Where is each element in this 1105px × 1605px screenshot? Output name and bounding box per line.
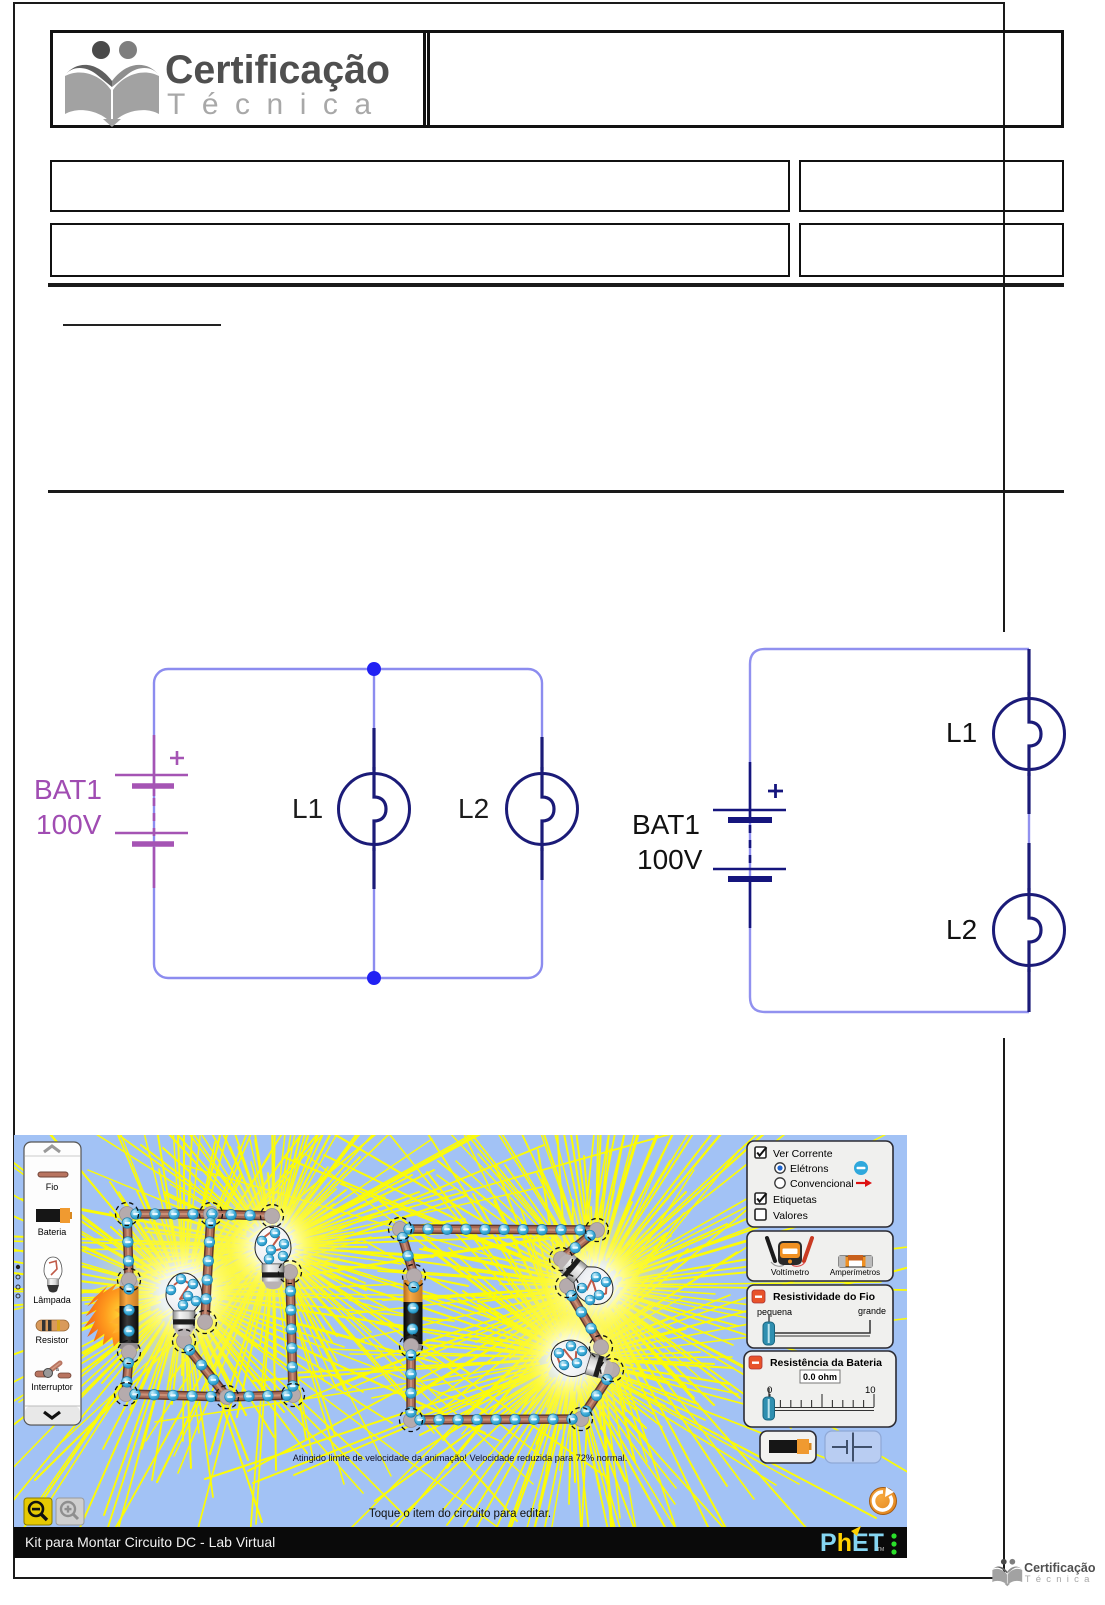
svg-text:Resistor: Resistor [35,1335,68,1345]
svg-text:Elétrons: Elétrons [790,1163,829,1175]
bottom bar and buttons [14,1453,907,1558]
page frame left border [13,2,15,1578]
lamp L2 [507,774,578,845]
wire loop (series circuit) [750,649,1029,1012]
form row 1 left box [50,160,790,212]
svg-text:0.0 ohm: 0.0 ohm [803,1372,837,1382]
svg-text:Valores: Valores [773,1210,808,1222]
svg-text:Bateria: Bateria [38,1227,67,1237]
svg-text:grande: grande [858,1306,886,1316]
svg-text:Kit para Montar Circuito DC -: Kit para Montar Circuito DC - Lab Virtua… [25,1534,275,1550]
svg-text:BAT1: BAT1 [632,809,700,840]
thick divider line [48,283,1064,287]
section divider line [48,490,1064,493]
svg-text:Toque o item do circuito para: Toque o item do circuito para editar. [369,1508,551,1520]
svg-text:Atingido limite de velocidade: Atingido limite de velocidade da animaçã… [293,1453,628,1463]
svg-text:Ver Corrente: Ver Corrente [773,1148,833,1160]
bottom buttons [760,1431,816,1463]
svg-text:a: a [56,1367,59,1373]
svg-text:Fio: Fio [46,1182,59,1192]
svg-text:PhET: PhET [820,1529,884,1557]
component toolbar [24,1142,81,1425]
svg-text:TM: TM [877,1547,884,1553]
wire loop (parallel circuit) [154,669,542,978]
svg-text:Certificação: Certificação [165,48,390,92]
page frame top border [13,2,1004,4]
svg-text:Técnica: Técnica [1025,1574,1095,1585]
wire middle branch [373,669,375,797]
svg-text:L1: L1 [946,717,977,748]
lamp L2 [994,895,1065,966]
short underline [63,324,221,326]
lamp L2 lead wire [540,737,543,770]
svg-text:Técnica: Técnica [167,88,388,121]
sim background [14,1135,907,1527]
light rays from glowing bulbs [0,877,978,1605]
node junction top [367,662,381,676]
svg-text:Resistividade do Fio: Resistividade do Fio [773,1291,875,1303]
svg-text:Amperímetros: Amperímetros [830,1268,880,1277]
page frame bottom border [13,1577,1005,1579]
header empty cell [423,30,1064,128]
page frame right border [1003,2,1005,1578]
lamp L1 [339,774,410,845]
sim circuit wires [127,1214,272,1216]
flame on battery [84,1283,137,1346]
lamp L1 [994,699,1065,770]
sim light bulbs [166,1273,202,1336]
svg-text:Etiquetas: Etiquetas [773,1194,817,1206]
junction selection rings [116,1203,139,1226]
svg-text:Convencional: Convencional [790,1178,854,1190]
svg-text:L2: L2 [946,914,977,945]
lamp L2 lead wire [1027,843,1030,891]
battery BAT1 [115,735,188,888]
svg-text:Resistência da Bateria: Resistência da Bateria [770,1357,882,1369]
svg-text:Certificação: Certificação [1024,1561,1096,1575]
svg-text:BAT1: BAT1 [34,774,102,805]
svg-text:100V: 100V [36,809,102,840]
lamp L1 lead wire [1027,649,1030,695]
svg-text:Lâmpada: Lâmpada [33,1295,71,1305]
svg-text:L2: L2 [458,793,489,824]
electrons [131,1209,142,1220]
control panels [744,1141,896,1463]
svg-text:Interruptor: Interruptor [31,1382,73,1392]
form row 2 left box [50,223,790,277]
node junction bottom [367,971,381,985]
form row 2 right box [799,223,1064,277]
panel Ver Corrente [747,1141,893,1227]
svg-text:pequena: pequena [757,1307,792,1317]
panel resistividade [747,1285,893,1348]
battery BAT1 [713,762,786,928]
panel resistencia bateria [744,1351,896,1427]
sim batteries [120,1280,139,1349]
svg-text:L1: L1 [292,793,323,824]
lamp L1 lead wire [372,728,375,770]
header logo cell [50,30,430,128]
panel meters [747,1231,893,1281]
wire junctions [120,1207,135,1222]
svg-text:100V: 100V [637,844,703,875]
glow halos [89,1198,279,1388]
svg-text:Voltímetro: Voltímetro [771,1267,810,1277]
form row 1 right box [799,160,1064,212]
